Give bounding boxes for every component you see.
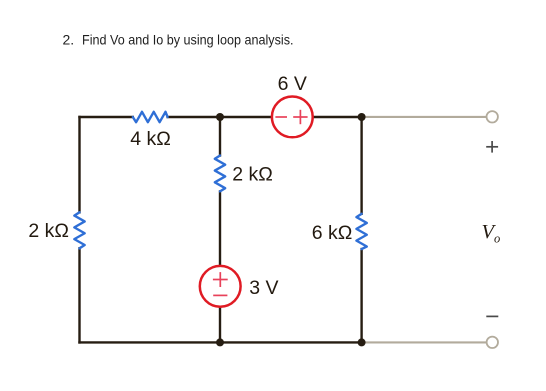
svg-text:4 kΩ: 4 kΩ [130, 128, 171, 150]
svg-text:Find Vo and Io by using loop a: Find Vo and Io by using loop analysis. [82, 32, 294, 48]
svg-text:3 V: 3 V [249, 277, 278, 299]
svg-text:2 kΩ: 2 kΩ [28, 220, 69, 242]
svg-text:2.: 2. [63, 32, 75, 48]
svg-text:6 V: 6 V [278, 73, 307, 95]
svg-text:2 kΩ: 2 kΩ [232, 163, 273, 185]
svg-text:6 kΩ: 6 kΩ [312, 222, 353, 244]
